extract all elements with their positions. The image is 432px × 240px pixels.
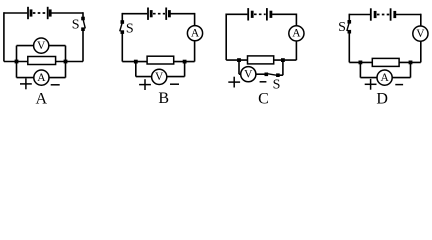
wire A left side (3, 12, 5, 61)
wire C right upper (295, 14, 297, 26)
battery dashed middle (33, 12, 47, 14)
node right (circuit A) (64, 60, 68, 64)
wire A top-left (4, 12, 27, 14)
minus polarity label (51, 84, 60, 86)
wire V-branch right (A) (49, 45, 66, 47)
circuit C (226, 8, 304, 108)
wire C bottom-left (226, 59, 247, 61)
battery long plate (47, 7, 49, 19)
svg-text:S: S (273, 77, 281, 92)
voltmeter V (circuit B) (152, 69, 167, 84)
wire A-branch left drop (D) (359, 62, 361, 77)
wire A top-right (51, 12, 83, 14)
battery dashed middle (153, 13, 165, 15)
plus polarity label (20, 79, 32, 90)
switch S (circuit A) contact dot (81, 17, 85, 21)
battery short plate (49, 9, 52, 16)
svg-text:A: A (37, 72, 46, 84)
circuit D (338, 8, 428, 107)
wire C top-left (226, 13, 247, 15)
wire switch to node stub (C) (278, 74, 283, 76)
switch S (circuit C) contact dot (265, 73, 269, 77)
battery long plate (147, 8, 149, 20)
battery long plate (247, 8, 249, 20)
switch S (circuit A) blade (83, 19, 85, 28)
switch S (circuit C) blade (267, 74, 278, 76)
wire A bottom-left (4, 61, 28, 63)
wire A-branch left (A) (17, 77, 34, 79)
circuit A (4, 7, 85, 108)
wire D top-right (396, 14, 421, 16)
wire B bottom-left (122, 61, 147, 63)
switch S (circuit A) contact dot (81, 27, 85, 31)
wire V-branch left stub (C) (239, 73, 241, 75)
wire A right upper (82, 12, 84, 18)
wire B top-right (170, 13, 194, 15)
wire V-branch left drop (B) (135, 62, 137, 77)
voltmeter V (circuit C) (241, 67, 256, 82)
battery long plate (370, 8, 372, 20)
wire V to switch (C) (256, 73, 266, 75)
battery short plate (393, 11, 396, 18)
switch S (circuit B) blade (120, 23, 123, 32)
wire A-branch left (D) (360, 77, 377, 79)
svg-text:V: V (155, 71, 164, 83)
ammeter A (circuit B) (187, 26, 202, 41)
switch S (circuit D) contact dot (348, 20, 352, 24)
svg-text:V: V (37, 40, 46, 52)
wire V-branch left drop (A) (16, 46, 18, 62)
wire A-branch right drop (D) (410, 62, 412, 77)
svg-text:S: S (126, 21, 134, 36)
wire V-branch right (B) (167, 76, 185, 78)
wire D right lower (420, 41, 422, 62)
node left (circuit C) (237, 58, 241, 62)
wire D left upper (348, 14, 350, 22)
resistor R (circuit B) (147, 56, 174, 64)
switch S (circuit B) contact dot (121, 30, 125, 34)
battery short plate (150, 10, 153, 17)
svg-text:V: V (416, 28, 425, 40)
wire C top-right (272, 13, 296, 15)
battery long plate (165, 8, 167, 20)
wire V-branch right drop (B) (184, 62, 186, 77)
node right (circuit B) (183, 60, 187, 64)
wire switch-branch drop (C) (282, 60, 284, 75)
node left (circuit B) (134, 60, 138, 64)
plus polarity label (365, 79, 377, 90)
resistor R (circuit A) (28, 57, 56, 65)
wire C right lower (295, 41, 297, 60)
battery long plate (390, 8, 392, 20)
node right (circuit C) (281, 58, 285, 62)
minus polarity label (170, 83, 179, 85)
battery dashed middle (254, 13, 266, 15)
wire D bottom-right (399, 61, 421, 63)
wire B left upper (121, 13, 123, 22)
wire A-branch right (A) (49, 77, 66, 79)
minus polarity label (395, 84, 403, 86)
battery short plate (374, 11, 377, 18)
wire B right lower (194, 41, 196, 62)
voltmeter V (circuit A) (34, 38, 49, 53)
ammeter A (circuit A) (34, 70, 49, 85)
plus polarity label (228, 77, 240, 88)
wire C bottom-right (274, 59, 297, 61)
wire V-branch left (B) (136, 76, 152, 78)
switch S (circuit B) contact dot (121, 20, 125, 24)
wire A-branch right drop (A) (65, 62, 67, 78)
wire B bottom-right (174, 61, 195, 63)
wire A-branch left drop (A) (16, 62, 18, 78)
node left (circuit D) (359, 61, 363, 65)
svg-text:A: A (380, 72, 389, 84)
wire D bottom-left (349, 61, 372, 63)
switch S (circuit D) contact dot (348, 30, 352, 34)
battery long plate (27, 7, 29, 19)
svg-text:A: A (292, 28, 301, 40)
svg-text:B: B (158, 90, 169, 107)
svg-text:S: S (338, 20, 346, 35)
svg-text:A: A (36, 91, 48, 108)
plus polarity label (139, 79, 151, 90)
wire A bottom-right (56, 61, 83, 63)
resistor R (circuit D) (372, 58, 399, 66)
wire A right lower (82, 29, 84, 61)
svg-text:C: C (258, 91, 269, 108)
wire V-branch right drop (A) (65, 46, 67, 62)
svg-text:A: A (191, 28, 200, 40)
battery short plate (30, 9, 33, 16)
svg-text:V: V (244, 69, 253, 81)
wire B left lower (121, 32, 123, 62)
wire A-branch right (D) (392, 77, 410, 79)
wire B top-left (122, 13, 147, 15)
wire C left side (225, 14, 227, 61)
voltmeter V (circuit D) (413, 26, 428, 41)
battery dashed middle (377, 14, 390, 16)
battery short plate (269, 11, 272, 18)
minus polarity label (260, 81, 267, 83)
switch S (circuit D) blade (347, 22, 350, 31)
wire D right upper (420, 14, 422, 26)
switch S (circuit C) contact dot (276, 73, 280, 77)
svg-text:D: D (376, 91, 388, 108)
battery short plate (168, 10, 171, 17)
node left (circuit A) (15, 60, 19, 64)
circuit B (120, 8, 203, 108)
node right (circuit D) (409, 61, 413, 65)
wire D left lower (348, 32, 350, 63)
svg-text:S: S (72, 18, 80, 33)
wire B right upper (194, 13, 196, 26)
wire V-branch left (A) (17, 45, 34, 47)
wire D top-left (349, 14, 370, 16)
battery long plate (266, 8, 268, 20)
battery short plate (251, 11, 254, 18)
resistor R (circuit C) (248, 56, 274, 64)
ammeter A (circuit C) (289, 26, 304, 41)
wire V-branch left drop (C) (238, 60, 240, 74)
ammeter A (circuit D) (377, 70, 392, 85)
